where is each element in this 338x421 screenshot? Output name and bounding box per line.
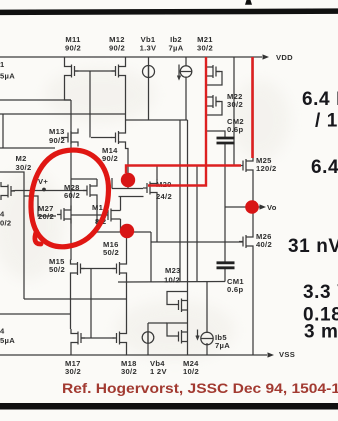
wire M26 drain down to rail <box>252 251 254 356</box>
wire M27 gate row <box>24 196 56 216</box>
svg-text:Vo: Vo <box>267 203 277 212</box>
wire M25 source up <box>252 57 254 157</box>
wire long vertical x197 <box>196 166 198 282</box>
transistor M23 channel <box>181 299 183 313</box>
svg-text:40/2: 40/2 <box>256 240 272 249</box>
svg-text:120/2: 120/2 <box>256 164 277 173</box>
wire node1 bracket <box>111 178 113 189</box>
wire M17 drain to rail <box>70 347 72 355</box>
svg-text:5µA: 5µA <box>0 72 15 81</box>
transistor M24 channel <box>181 330 183 344</box>
svg-text:3.3 V: 3.3 V <box>303 282 338 303</box>
wire M28 drain down <box>96 200 98 233</box>
transistor M20 <box>143 179 157 197</box>
wire left box top row y100 <box>0 99 71 101</box>
wire left box bottom row y148 <box>0 147 55 149</box>
wire row y120 <box>126 119 188 121</box>
wire M13 gate lead left <box>61 137 64 139</box>
transistor M25 <box>239 157 253 175</box>
transistor M14 <box>112 129 126 147</box>
svg-text:7µA: 7µA <box>169 44 184 53</box>
current source Ib5 <box>201 332 213 344</box>
transistor M23 diode loop <box>167 292 188 305</box>
wire Vb4 gate row to M24 loop <box>148 322 167 324</box>
transistor M24 arms <box>182 332 188 342</box>
svg-text:50/2: 50/2 <box>49 265 65 274</box>
svg-text:10/2: 10/2 <box>164 276 180 285</box>
transistor M11 <box>65 62 79 80</box>
red annotation hook <box>35 231 41 244</box>
svg-text:4: 4 <box>0 327 5 336</box>
node Vo arrow <box>260 204 267 209</box>
svg-text:6.4 M: 6.4 M <box>302 89 338 110</box>
transistor M27 <box>57 206 71 224</box>
wire CM1 bottom lead <box>224 268 226 282</box>
transistor M1 <box>103 209 121 222</box>
wire M12 drain down to M14 <box>125 80 127 129</box>
transistor M22 <box>206 93 220 111</box>
transistor M17 <box>71 329 85 347</box>
wire Vb1 bottom lead <box>148 65 150 120</box>
red node dot 1 <box>121 173 135 187</box>
wire ellipse column x71 <box>70 100 72 260</box>
wire M21 M22 left column x206 <box>205 57 207 186</box>
wire gate bias drop x90 <box>89 71 91 138</box>
svg-text:90/2: 90/2 <box>49 136 65 145</box>
red highlight wire M21 column to M20 gate <box>148 57 206 186</box>
wire bias drop x91 <box>90 269 92 339</box>
wire M16 column down to M18 <box>126 278 128 330</box>
transistor M12 <box>112 62 126 80</box>
svg-text:30/2: 30/2 <box>16 163 32 172</box>
wire left box side x4 <box>2 114 4 148</box>
wire M20 drain down <box>156 197 158 242</box>
svg-text:1.3V: 1.3V <box>140 44 157 53</box>
svg-text:24/2: 24/2 <box>156 192 172 201</box>
wire M18 drain to rail <box>126 347 128 355</box>
svg-text:30/2: 30/2 <box>197 44 213 53</box>
wire M14 drain down to node1 <box>126 147 129 189</box>
transistor M28 <box>83 182 97 200</box>
transistor M23 gate bar <box>178 300 180 310</box>
wire M20 source up to red row <box>156 166 158 180</box>
wire long vertical x180 <box>179 120 181 282</box>
wire Ib5 top lead <box>206 282 208 334</box>
svg-text:M2: M2 <box>16 154 27 163</box>
svg-text:6.4: 6.4 <box>311 157 338 178</box>
wire Vb4 bottom lead <box>147 332 149 355</box>
svg-text:3 m.: 3 m. <box>304 322 338 343</box>
svg-text:7µA: 7µA <box>215 341 230 350</box>
transistor M18 <box>113 329 127 347</box>
svg-text:0.6p: 0.6p <box>227 125 243 134</box>
top black bar <box>0 8 338 15</box>
transistor M21 <box>206 63 220 81</box>
wire row y281 <box>118 281 225 284</box>
wire M20 gate row y196 <box>119 196 144 198</box>
capacitor CM1 <box>217 263 235 268</box>
wire Vo row <box>225 206 260 208</box>
svg-text:1 2V: 1 2V <box>150 367 167 376</box>
wire x151 vertical <box>150 232 152 282</box>
transistor M26 <box>239 233 253 251</box>
wire node2 column to M16 <box>126 232 128 260</box>
svg-text:0/2: 0/2 <box>0 219 11 228</box>
svg-text:VDD: VDD <box>276 53 293 62</box>
svg-text:0.6p: 0.6p <box>227 285 243 294</box>
svg-text:M13: M13 <box>49 127 65 136</box>
transistor M16 <box>113 260 127 278</box>
wire M1 source stub up <box>120 197 122 211</box>
svg-text:V+: V+ <box>38 177 48 186</box>
wire x234 rail drop <box>233 57 235 166</box>
svg-text:90/2: 90/2 <box>65 44 81 53</box>
wire M14 gate lead row <box>91 137 112 139</box>
svg-text:4: 4 <box>0 210 5 219</box>
wire M15 column down to M17 <box>70 278 72 330</box>
wire x25 vertical <box>0 172 24 299</box>
wire gate tie M17 M18 <box>81 337 115 339</box>
wire row y188 node1 to M20 gate <box>112 188 143 190</box>
wire M11 drain down to row y100 <box>65 80 72 100</box>
red annotation ellipse <box>31 150 109 247</box>
current source Ib2 <box>180 66 192 78</box>
wire gate tie M11 M12 <box>75 70 116 72</box>
red node dot 2 <box>120 224 134 238</box>
wire Ib2 top lead <box>185 57 187 67</box>
wire M22 diode loop <box>206 102 222 116</box>
wire gate tie M15 M16 <box>81 268 116 270</box>
svg-text:30/2: 30/2 <box>121 367 137 376</box>
wire Vb1 top lead <box>148 57 150 78</box>
wire M1 drain down <box>120 219 122 232</box>
wire row y314 <box>0 313 71 315</box>
capacitor CM2 <box>217 138 235 143</box>
svg-text:90/2: 90/2 <box>102 154 118 163</box>
wire Ib5 bottom lead <box>206 343 208 355</box>
svg-text:90/2: 90/2 <box>109 44 125 53</box>
wire M1 gate row <box>71 214 103 216</box>
red node dot Vo <box>245 200 259 214</box>
svg-text:Ref. Hogervorst, JSSC Dec 94,: Ref. Hogervorst, JSSC Dec 94, 1504-1 <box>62 380 338 396</box>
wire M12 source up <box>125 57 127 62</box>
wire row y299 <box>24 298 127 300</box>
node VSS arrow <box>268 352 275 357</box>
top cropped letter p <box>245 0 252 5</box>
wire M21 diode loop <box>206 72 222 86</box>
svg-text:VSS: VSS <box>279 350 295 359</box>
transistor M2 <box>1 182 15 200</box>
wire Ib2 bottom lead <box>185 77 187 121</box>
svg-text:1: 1 <box>0 60 5 69</box>
wire Vb4 top lead <box>147 323 149 343</box>
wire CM2 bottom column to CM1 <box>224 143 226 263</box>
wire M26 gate row <box>151 241 243 243</box>
svg-text:M23: M23 <box>165 266 181 275</box>
transistor M24 diode loop <box>167 323 188 336</box>
node V+ dot <box>42 188 46 192</box>
transistor M13 <box>64 129 78 147</box>
wire M26 source up to Vo node <box>252 210 254 233</box>
node VDD arrow <box>263 54 270 59</box>
svg-text:31 nV: 31 nV <box>288 236 338 257</box>
wire VSS rail <box>0 354 267 356</box>
svg-text:50/2: 50/2 <box>103 248 119 257</box>
svg-text:30/2: 30/2 <box>65 367 81 376</box>
wire M25 drain to Vo node <box>252 175 254 208</box>
wire M11 source up <box>64 57 66 62</box>
transistor M24 gate bar <box>178 332 180 342</box>
wire row y232 <box>97 231 151 233</box>
wire M28 source stub <box>96 179 98 182</box>
voltage source Vb4 <box>142 332 154 344</box>
svg-text:60/2: 60/2 <box>64 191 80 200</box>
bottom black bar <box>0 403 338 410</box>
wire M22 to CM2 top <box>206 131 225 138</box>
svg-text:20/2: 20/2 <box>38 212 54 221</box>
red highlight wire node1 to M25 gate <box>126 166 241 174</box>
svg-text:M1: M1 <box>92 203 104 212</box>
red highlight wire M25 source <box>251 57 254 158</box>
wire VDD rail <box>0 56 262 58</box>
transistor M23 arms <box>182 301 188 311</box>
svg-text:5µA: 5µA <box>0 336 15 345</box>
svg-text:30/2: 30/2 <box>227 100 243 109</box>
svg-text:10/2: 10/2 <box>183 367 199 376</box>
wire M28 source row y179 <box>71 178 97 180</box>
transistor M15 <box>71 260 85 278</box>
svg-text:/ 10: / 10 <box>315 111 338 132</box>
voltage source Vb1 <box>143 66 155 78</box>
wire column x187 <box>187 120 189 355</box>
wire V+ row <box>15 190 87 192</box>
wire row y115 <box>0 113 126 115</box>
wire M2 gate lead to V+ <box>11 190 15 193</box>
